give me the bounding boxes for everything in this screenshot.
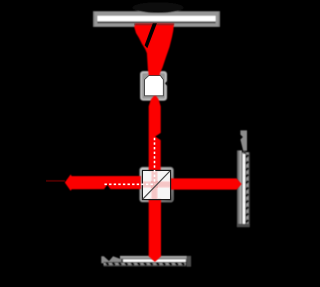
diverging beam cone (lens to screen) bbox=[134, 23, 174, 76]
residual beam (weak transmitted line, far left) bbox=[46, 180, 65, 182]
beam splitter cube body bbox=[139, 167, 174, 203]
screen (observation screen bar at top) bbox=[93, 2, 220, 27]
gap between cone beams bbox=[145, 23, 157, 48]
mirror M1 (bottom, fixed) bbox=[101, 256, 191, 267]
cone/bar overlap shading bbox=[134, 23, 174, 25]
mirror M2 (right, movable) bbox=[237, 130, 250, 227]
beam splitter internal faint beams bbox=[143, 171, 171, 200]
reference path (dashed, vertical) bbox=[154, 138, 156, 185]
reference path (dashed, horizontal) bbox=[105, 183, 156, 185]
input beam (left arrow into beam splitter) bbox=[65, 175, 141, 191]
beam splitter diagonal bbox=[143, 171, 170, 199]
lens mount (collimating lens housing) bbox=[140, 71, 167, 101]
beam to mirror M2 (right) bbox=[171, 178, 242, 189]
lens element (white dome) bbox=[145, 76, 164, 96]
beam to mirror M1 (down) bbox=[149, 199, 161, 262]
output beam (up arrow, splitter to lens) bbox=[149, 96, 161, 171]
lens mount notch bbox=[165, 81, 168, 87]
beam splitter outline bbox=[142, 170, 170, 199]
